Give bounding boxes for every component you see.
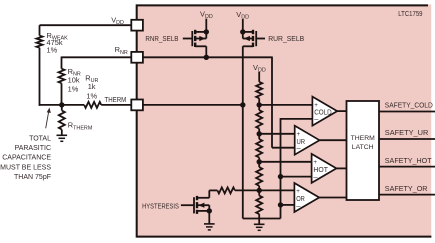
resistor ladder R2 bbox=[258, 105, 260, 110]
wire output SAFETY_OR bbox=[379, 194, 435, 196]
pin box VDD bbox=[131, 20, 143, 31]
svg-text:RNR: RNR bbox=[115, 45, 128, 56]
wire THERM pin internal bbox=[143, 104, 243, 106]
op-amp comparator OR bbox=[294, 183, 319, 212]
wire Q2 drain down to bottom bus bbox=[242, 46, 244, 218]
svg-text:HOT: HOT bbox=[313, 165, 328, 174]
ground ladder bbox=[254, 223, 265, 225]
wire tap1 to COLD plus bbox=[259, 104, 314, 106]
svg-text:RUR_SELB: RUR_SELB bbox=[268, 34, 304, 43]
resistor hysteresis bbox=[217, 187, 235, 193]
op-amp comparator COLD bbox=[312, 97, 337, 126]
wire output SAFETY_HOT bbox=[379, 166, 435, 168]
svg-text:LTC1759: LTC1759 bbox=[398, 9, 422, 18]
svg-text:SAFETY_COLD: SAFETY_COLD bbox=[385, 101, 433, 110]
wire RNR internal to UR minus bbox=[143, 56, 272, 58]
wire OR output bbox=[319, 197, 346, 199]
resistor RTHERM bbox=[61, 105, 63, 111]
resistor RWEAK bbox=[39, 25, 41, 35]
wire output SAFETY_COLD bbox=[379, 111, 435, 113]
wire RNR pin to RNR resistor bbox=[62, 56, 133, 58]
op-amp comparator HOT bbox=[312, 154, 337, 183]
svg-text:UR: UR bbox=[297, 137, 306, 146]
svg-text:1%: 1% bbox=[86, 91, 97, 100]
resistor ladder R3 bbox=[258, 134, 260, 139]
svg-text:LATCH: LATCH bbox=[352, 144, 374, 151]
op-amp comparator UR bbox=[295, 126, 320, 155]
node Q1 drain junction bbox=[204, 55, 209, 60]
wire RUR to THERM pin bbox=[101, 104, 132, 106]
svg-text:1%: 1% bbox=[68, 84, 79, 93]
svg-text:OR: OR bbox=[296, 194, 305, 203]
wire THERM net bbox=[62, 104, 84, 106]
latch U2 THERM LATCH bbox=[347, 101, 380, 200]
svg-text:THERM: THERM bbox=[105, 95, 127, 104]
node tap2 bbox=[257, 131, 262, 136]
svg-text:SAFETY_UR: SAFETY_UR bbox=[385, 128, 429, 137]
wire UR output bbox=[320, 139, 347, 141]
node OR minus junction bbox=[278, 202, 283, 207]
svg-text:RNR_SELB: RNR_SELB bbox=[145, 34, 178, 43]
wire hysteresis to resistor bbox=[209, 189, 217, 191]
resistor ladder R1 bbox=[258, 72, 260, 82]
svg-text:PARASITIC: PARASITIC bbox=[15, 145, 51, 152]
wire output SAFETY_UR bbox=[379, 138, 435, 140]
svg-text:MUST BE LESS: MUST BE LESS bbox=[0, 164, 51, 171]
node A junction dot bbox=[59, 102, 64, 107]
op-amp U1 LTC1759 chip body bbox=[136, 4, 432, 237]
svg-text:RTHERM: RTHERM bbox=[68, 121, 93, 132]
node THERM junction bbox=[240, 102, 245, 107]
svg-text:HYSTERESIS: HYSTERESIS bbox=[142, 201, 179, 210]
ground hysteresis bbox=[204, 223, 215, 225]
wire HOT output bbox=[336, 167, 346, 169]
wire tap3 to HOT plus bbox=[259, 161, 313, 163]
pin box THERM bbox=[131, 100, 143, 111]
annotation arrow to node A bbox=[46, 112, 49, 129]
wire RWEAK bottom to THERM node bbox=[39, 104, 62, 106]
resistor RUR 1k bbox=[84, 102, 101, 108]
wire hysteresis resistor to tap4 and OR plus bbox=[235, 189, 296, 191]
resistor ladder R4 bbox=[258, 162, 260, 167]
svg-text:COLD: COLD bbox=[314, 108, 332, 117]
svg-text:10k: 10k bbox=[68, 75, 80, 84]
resistor RNR 10k bbox=[59, 69, 65, 84]
svg-text:THERM: THERM bbox=[351, 135, 376, 142]
node HOT minus junction bbox=[278, 174, 283, 179]
wire COLD output bbox=[337, 110, 346, 112]
svg-text:SAFETY_HOT: SAFETY_HOT bbox=[385, 156, 432, 165]
node tap3 bbox=[257, 159, 262, 164]
svg-text:SAFETY_OR: SAFETY_OR bbox=[385, 184, 428, 193]
node tap1 bbox=[257, 102, 262, 107]
svg-text:1%: 1% bbox=[47, 46, 58, 55]
svg-text:1k: 1k bbox=[88, 82, 96, 91]
node Q3 source junction bbox=[207, 208, 212, 213]
svg-text:TOTAL: TOTAL bbox=[29, 135, 51, 142]
wire tap2 to UR plus bbox=[259, 133, 296, 135]
pin box RNR bbox=[131, 52, 143, 63]
wire VDD top bbox=[40, 24, 133, 26]
svg-text:THAN 75pF: THAN 75pF bbox=[14, 174, 51, 181]
node tap4 bbox=[257, 188, 262, 193]
ground for RTHERM bbox=[57, 134, 68, 136]
resistor ladder R5 bbox=[258, 190, 260, 195]
svg-text:CAPACITANCE: CAPACITANCE bbox=[2, 155, 51, 162]
wire COLD minus corner and vertical bus bbox=[281, 118, 315, 120]
